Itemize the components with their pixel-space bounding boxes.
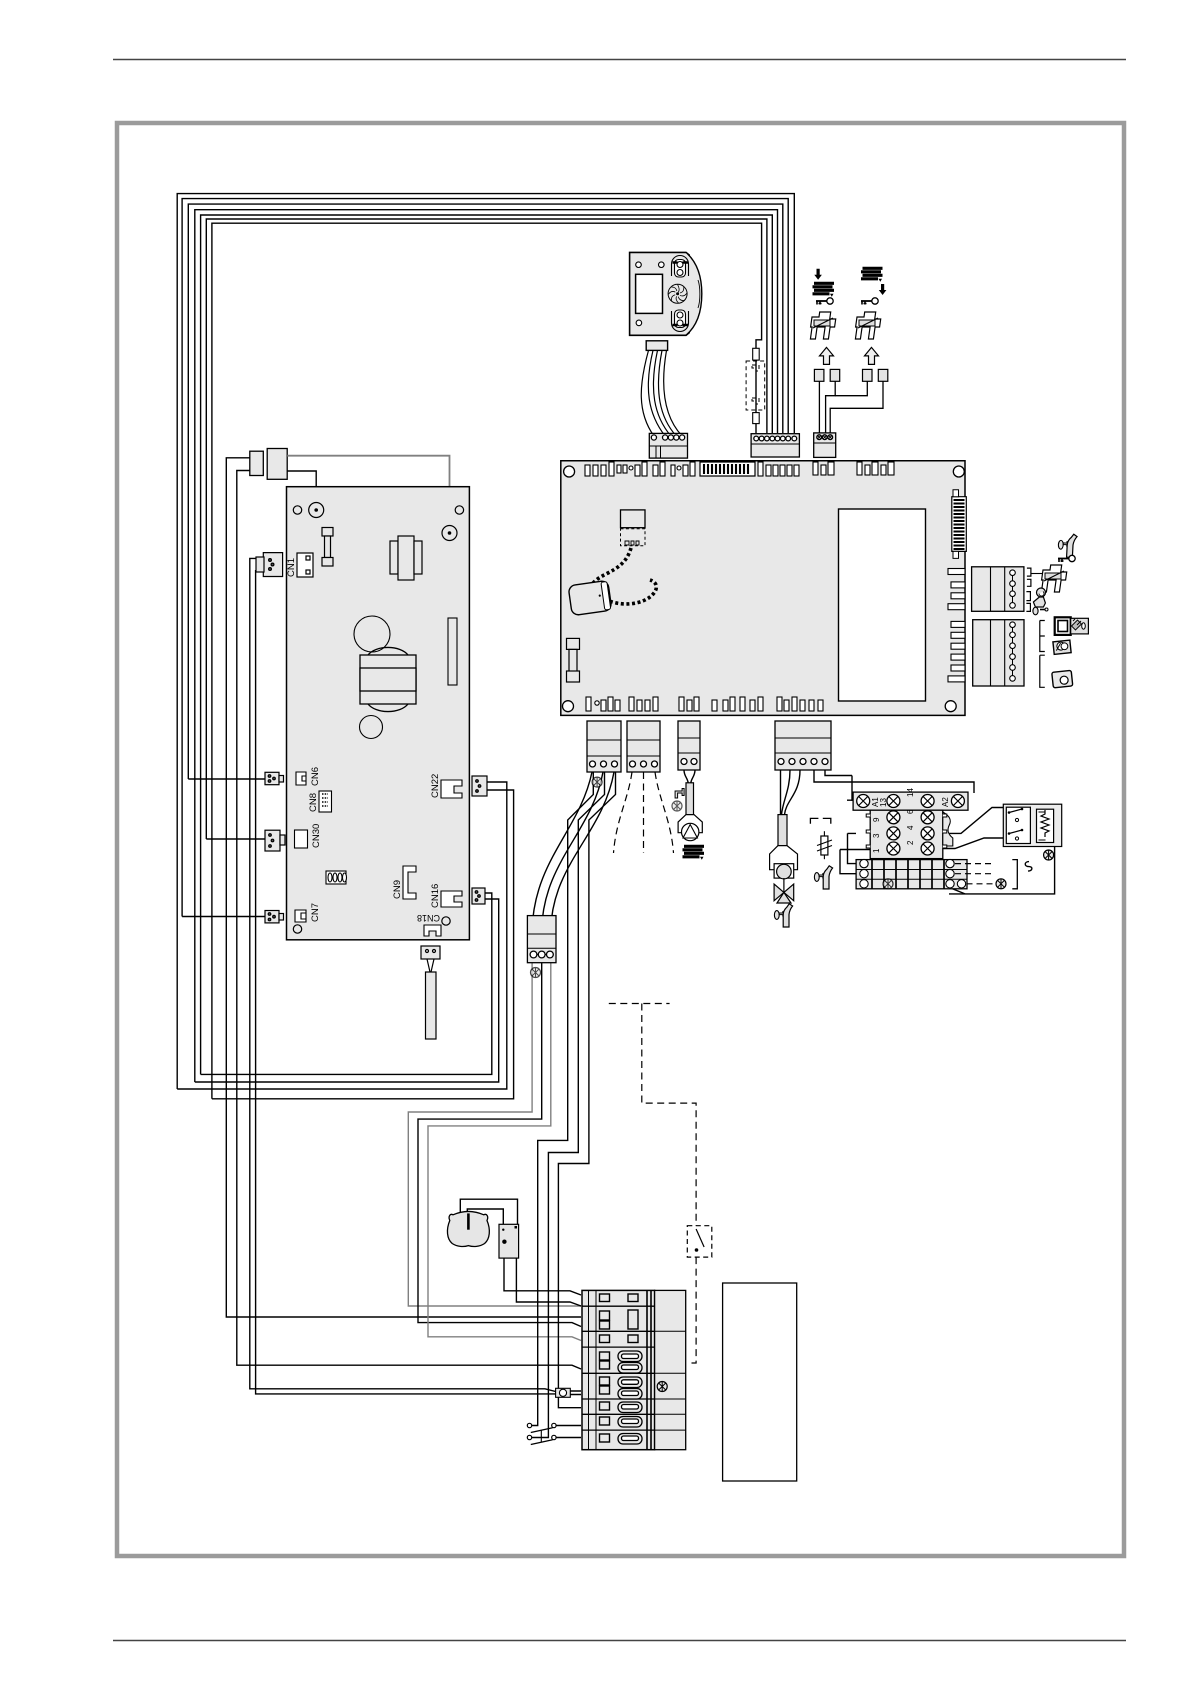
fan connector 6-pin (649, 433, 687, 458)
wire connector D to gas valve x3 (781, 770, 801, 815)
wire w7 lower branch (755, 360, 757, 433)
display window (839, 509, 926, 701)
svg-text:CN7: CN7 (310, 903, 321, 922)
frame earth screw (1044, 850, 1054, 860)
spade terminal 2 (830, 369, 840, 381)
svg-text:CN1: CN1 (286, 558, 297, 577)
air pressure switch dashed box (746, 361, 765, 410)
right edge slots group1 (948, 569, 965, 610)
wire relay row3 left (840, 843, 890, 850)
relay pin tabs left (866, 814, 870, 848)
wire vessel loop upper (460, 1199, 517, 1224)
gas tap (774, 904, 792, 927)
up arrow outline (820, 347, 834, 364)
bypass bracket (810, 818, 830, 823)
frame border (117, 123, 1124, 1556)
connector CN22 on board (441, 780, 462, 798)
wire step right a (532, 772, 594, 1426)
top edge castellation group3 (813, 462, 894, 475)
wire connector D pin5 to relay left (825, 770, 857, 800)
3-pin connector top (814, 433, 836, 458)
bottom rule (113, 1640, 1126, 1642)
pump key tab (675, 789, 684, 799)
wire gray from plug block pin3 (428, 963, 581, 1341)
shower person icon (1033, 588, 1048, 615)
pump screw (672, 801, 682, 811)
gas valve stem (778, 815, 787, 846)
wire elbow to CN16 b (195, 899, 499, 1082)
connector CN9 on board (403, 866, 416, 899)
big capacitor circle (354, 616, 390, 652)
gas valve housing (770, 846, 798, 870)
AC supply squiggle (1025, 862, 1032, 872)
micro with dashed socket (621, 510, 646, 528)
pump coil bars (683, 846, 705, 860)
wire from CN1 plug a (250, 558, 556, 1391)
junction block 1 (250, 451, 263, 475)
dhw tap (814, 866, 832, 889)
wire bundle w4 (195, 210, 778, 1082)
wire bundle w5 (201, 215, 773, 1074)
small circle cap (360, 716, 383, 739)
wire vessel loop lower (467, 1209, 503, 1224)
pump stem (686, 783, 694, 815)
flue clip right (1031, 573, 1042, 575)
external connector block 2 (973, 620, 1024, 686)
display blob (568, 580, 612, 615)
external connector block 1 (972, 567, 1024, 612)
svg-text:CN9: CN9 (392, 880, 403, 899)
below-board connector C (678, 721, 700, 770)
coil stack (813, 283, 835, 297)
fuse F1 (322, 528, 333, 567)
right edge comb connector (952, 490, 967, 559)
flow switch 1 (527, 1423, 556, 1432)
CN1 external plug (256, 553, 283, 577)
earth screw below plug block (531, 968, 541, 978)
connector CN6 on board (296, 772, 306, 785)
air pressure switch resistor bottom (753, 413, 760, 424)
wire strip row1 feed from pressure box (504, 1258, 581, 1295)
wire strip bottom diagonal (943, 885, 965, 894)
fan assembly (630, 252, 702, 335)
fan bulge (686, 252, 702, 335)
wire fuse link to strip (570, 1391, 581, 1395)
svg-text:CN22: CN22 (430, 774, 441, 798)
connector CN30 on board (295, 830, 308, 848)
main 9-pin connector (751, 434, 799, 457)
wire from junction block 1 a (226, 458, 581, 1317)
strip clamp squares (600, 1294, 639, 1442)
external control dashed switch (687, 1226, 712, 1257)
board fuse F2 (567, 638, 580, 682)
legend white box (723, 1283, 797, 1481)
wire relay left terminal loop (847, 800, 858, 863)
wire from junction block 1 b (237, 471, 581, 1370)
top edge display connector comb (700, 462, 755, 476)
fan harness ferrule (646, 341, 667, 351)
svg-text:6: 6 (906, 809, 915, 814)
below-board connector A (587, 721, 621, 772)
wire step right c (558, 772, 615, 1408)
LH terminal icon group: down arrow (809, 269, 840, 382)
wire relay left lower vert (840, 850, 858, 874)
wire switch1 to strip (556, 1425, 581, 1427)
wire connector D to relay top (814, 770, 974, 793)
relay terminals top (857, 795, 870, 808)
ignition board PCB (286, 487, 469, 940)
bracket block1 upper (1027, 568, 1031, 586)
connector CN1 on board (297, 553, 313, 577)
dashed sensor wires from connector B (614, 772, 633, 853)
remote screw (996, 879, 1006, 889)
wire relay to stat box upper (943, 808, 1007, 834)
stat contacts (1009, 809, 1022, 834)
connector CN18 on board (424, 925, 441, 936)
connector CN16 on board (441, 891, 462, 907)
wire connector C to pump (684, 770, 695, 783)
ignition board mounting holes and pads (293, 503, 463, 934)
inline fuse on wire (556, 1388, 571, 1397)
stat box icon (1052, 670, 1073, 687)
fan impeller (668, 284, 687, 303)
pump assembly (672, 783, 704, 860)
pump housing (678, 815, 702, 833)
relay top row (853, 792, 968, 810)
spade terminal 1 (814, 369, 824, 381)
wire connector A to plug block x3 (532, 772, 592, 930)
wires from spade terminals to 3-pin connector (819, 381, 883, 433)
bracket block1 lower (1026, 592, 1030, 612)
wire bundle w6 (206, 219, 767, 839)
wire bundle w1 (177, 194, 794, 1089)
bracket block2 lower (1040, 655, 1045, 687)
room stat box (1003, 804, 1061, 846)
main board mounting holes (563, 466, 965, 712)
DIP switch SW1 (326, 871, 347, 884)
relay body (870, 810, 943, 858)
strip screw (657, 1382, 667, 1392)
CN16 external plug (472, 888, 485, 904)
svg-text:3: 3 (872, 833, 881, 838)
svg-text:CN18: CN18 (417, 913, 440, 923)
strip fuse ovals (618, 1351, 642, 1444)
wire to CN7 plug (182, 916, 265, 918)
fan terminal top (672, 256, 689, 277)
pump plug block (3 way) (527, 916, 556, 963)
main terminal strip (582, 1290, 686, 1449)
CN6 external plug (265, 772, 284, 784)
RH terminal icon group (854, 268, 888, 381)
flex cable dashed (591, 548, 631, 593)
dashed switch to strip (689, 1257, 696, 1363)
connector CN7 on board (295, 910, 306, 922)
wire bundle w3 (188, 204, 783, 779)
wire to CN30 plug (206, 838, 265, 840)
wire elbow to CN22 b (212, 790, 514, 1099)
air pressure switch resistor top (753, 348, 760, 360)
strip inner verticals (589, 1290, 597, 1449)
below-board connector B (627, 721, 660, 772)
gas valve assembly (770, 815, 798, 927)
top rule (113, 59, 1126, 61)
relay slot bar (448, 618, 457, 685)
wire switch2 to strip (556, 1437, 581, 1439)
wire elbow to CN22 a (177, 782, 507, 1089)
expansion vessel (447, 1212, 489, 1247)
transformer small (390, 536, 422, 580)
wire gray from plug block pin1 (408, 963, 581, 1306)
right edge slots group2 (948, 621, 965, 682)
bypass slashed resistor (817, 831, 832, 859)
wire from plug block pin2 (418, 963, 581, 1327)
dashed links to remote (955, 864, 993, 884)
wire relay to stat box lower (943, 838, 1007, 849)
svg-text:CN6: CN6 (310, 767, 321, 786)
wire bundle w2 (182, 199, 788, 917)
relay K1 (853, 788, 968, 859)
bracket for mains (1012, 860, 1017, 889)
key (816, 298, 833, 305)
fan terminal bottom (672, 310, 689, 332)
wire elbow to CN16 a (201, 893, 492, 1074)
butterfly valve (774, 884, 794, 901)
stat resistor zigzag (1041, 810, 1049, 837)
svg-text:1: 1 (872, 848, 881, 853)
wire from CN1 plug b (256, 571, 556, 1394)
CN7 external plug (265, 911, 284, 923)
svg-text:CN16: CN16 (430, 884, 441, 908)
svg-text:CN30: CN30 (311, 824, 322, 848)
terminal strip under relay (856, 859, 967, 888)
svg-text:A2: A2 (941, 797, 950, 807)
svg-text:13: 13 (879, 798, 888, 807)
water pressure switch box (499, 1224, 519, 1258)
relay labels (871, 788, 950, 853)
fan window (636, 274, 663, 313)
connector CN8 on board (319, 791, 332, 812)
top edge castellation group1 (585, 462, 695, 476)
wire to CN6 plug (188, 778, 265, 780)
key icon right (1058, 555, 1075, 562)
strip row dividers (582, 1306, 655, 1430)
svg-text:2: 2 (906, 840, 915, 845)
fan screw holes (636, 262, 642, 268)
svg-text:4: 4 (906, 825, 915, 830)
bracket block2 upper (1040, 621, 1045, 652)
wire step right b (532, 772, 605, 1438)
svg-text:CN8: CN8 (308, 793, 319, 812)
fan harness wires (641, 350, 682, 436)
bottom edge castellation (586, 697, 823, 711)
flow switch 2 (527, 1431, 556, 1445)
earth screw near connector A wires (592, 777, 602, 787)
CN30 external plug (265, 830, 285, 851)
relay terminals grid (887, 811, 900, 824)
programmer box icon (1055, 617, 1089, 635)
CN22 external plug (472, 776, 487, 796)
wire bundle w7 (with air-pressure switch branch) (212, 223, 762, 1099)
svg-text:9: 9 (872, 817, 881, 822)
dashed room sensor tee (609, 1004, 696, 1226)
CN18 external plug and electrode (421, 946, 440, 1039)
wire stat box bottom return (949, 847, 1055, 894)
svg-text:14: 14 (906, 788, 915, 797)
below-board connector D (775, 721, 831, 770)
flue clip (809, 312, 837, 339)
wire junction block1 to board hole (287, 471, 316, 502)
main transformer (360, 647, 416, 711)
wire pressure box second lead (516, 1258, 581, 1306)
top edge castellation group2 (758, 462, 799, 476)
sanitary tap icon (1058, 533, 1077, 557)
strip right col dividers (655, 1331, 686, 1430)
timer slashed box icon (1053, 640, 1071, 654)
wire junction block2 to board hole (gray) (287, 456, 449, 529)
junction block 2 (267, 449, 287, 480)
main control PCB (561, 461, 967, 716)
